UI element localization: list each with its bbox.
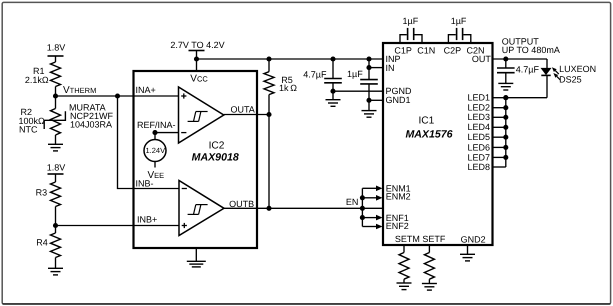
svg-text:R4: R4 <box>36 238 48 248</box>
svg-text:IC1: IC1 <box>418 116 434 127</box>
svg-text:1.24V: 1.24V <box>145 146 165 155</box>
svg-text:OUTA: OUTA <box>230 104 254 114</box>
svg-text:C1N: C1N <box>417 45 435 55</box>
svg-text:INB+: INB+ <box>137 215 157 225</box>
svg-text:LED5: LED5 <box>467 132 490 142</box>
svg-text:1.8V: 1.8V <box>47 162 66 172</box>
svg-text:2.1kΩ: 2.1kΩ <box>25 75 49 85</box>
svg-text:LED2: LED2 <box>467 103 490 113</box>
svg-text:LED4: LED4 <box>467 122 490 132</box>
svg-text:SETM SETF: SETM SETF <box>395 234 446 244</box>
svg-text:C2P: C2P <box>444 45 462 55</box>
svg-text:EN: EN <box>346 197 359 207</box>
svg-text:104J03RA: 104J03RA <box>70 120 112 130</box>
svg-text:1µF: 1µF <box>347 69 363 79</box>
svg-text:OUTB: OUTB <box>229 199 254 209</box>
svg-text:1.8V: 1.8V <box>47 43 66 53</box>
svg-text:1µF: 1µF <box>403 16 419 26</box>
svg-text:ENF2: ENF2 <box>386 221 409 231</box>
svg-text:R3: R3 <box>36 188 48 198</box>
svg-text:VCC: VCC <box>190 73 208 84</box>
svg-text:LED3: LED3 <box>467 112 490 122</box>
svg-text:IC2: IC2 <box>209 140 225 151</box>
svg-text:UP TO 480mA: UP TO 480mA <box>502 45 560 55</box>
svg-text:4.7µF: 4.7µF <box>303 70 327 80</box>
svg-text:MAX9018: MAX9018 <box>192 151 239 163</box>
svg-text:INA+: INA+ <box>136 85 156 95</box>
svg-text:LED7: LED7 <box>467 152 490 162</box>
svg-text:DS25: DS25 <box>559 75 582 85</box>
svg-text:LUXEON: LUXEON <box>559 64 596 74</box>
svg-text:OUT: OUT <box>472 54 492 64</box>
svg-text:LED8: LED8 <box>467 162 490 172</box>
svg-text:VTHERM: VTHERM <box>63 85 96 96</box>
svg-text:4.7µF: 4.7µF <box>516 64 540 74</box>
svg-text:MAX1576: MAX1576 <box>405 128 452 140</box>
svg-text:ENM2: ENM2 <box>386 191 411 201</box>
svg-text:LED6: LED6 <box>467 142 490 152</box>
svg-text:NTC: NTC <box>19 124 38 134</box>
svg-text:LED1: LED1 <box>467 93 490 103</box>
svg-text:GND1: GND1 <box>386 95 411 105</box>
svg-text:REF/INA-: REF/INA- <box>137 120 176 130</box>
svg-text:GND2: GND2 <box>461 234 486 244</box>
svg-text:INB-: INB- <box>136 178 154 188</box>
svg-text:1k Ω: 1k Ω <box>279 83 297 93</box>
svg-text:1µF: 1µF <box>451 16 467 26</box>
svg-text:IN: IN <box>386 63 395 73</box>
svg-text:2.7V TO 4.2V: 2.7V TO 4.2V <box>170 40 224 50</box>
